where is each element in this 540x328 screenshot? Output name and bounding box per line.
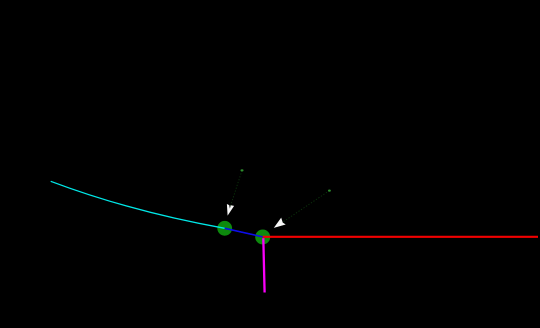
blue tangent segment P1 to P2 bbox=[225, 228, 264, 237]
red horizontal line from P2 to right edge bbox=[263, 236, 538, 238]
annotation arrow 2 shaft (dark green, dotted) bbox=[284, 191, 330, 222]
annotation arrow 2 start dot bbox=[328, 190, 331, 192]
green point marker P2 (tangent intersection) bbox=[255, 230, 270, 245]
magenta vertical drop line below P2 bbox=[263, 238, 264, 292]
cyan function curve bbox=[51, 181, 225, 228]
annotation arrow 1 shaft (dark green, dotted) bbox=[230, 171, 242, 207]
green point marker P1 (on curve) bbox=[217, 221, 232, 236]
annotation arrow 1 start dot bbox=[241, 169, 244, 171]
annotation arrow 1 white wedge head bbox=[227, 204, 234, 216]
annotation arrow 2 white wedge head bbox=[274, 218, 286, 228]
